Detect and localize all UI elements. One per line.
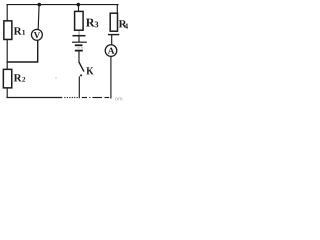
svg-text:om: om: [115, 97, 123, 103]
